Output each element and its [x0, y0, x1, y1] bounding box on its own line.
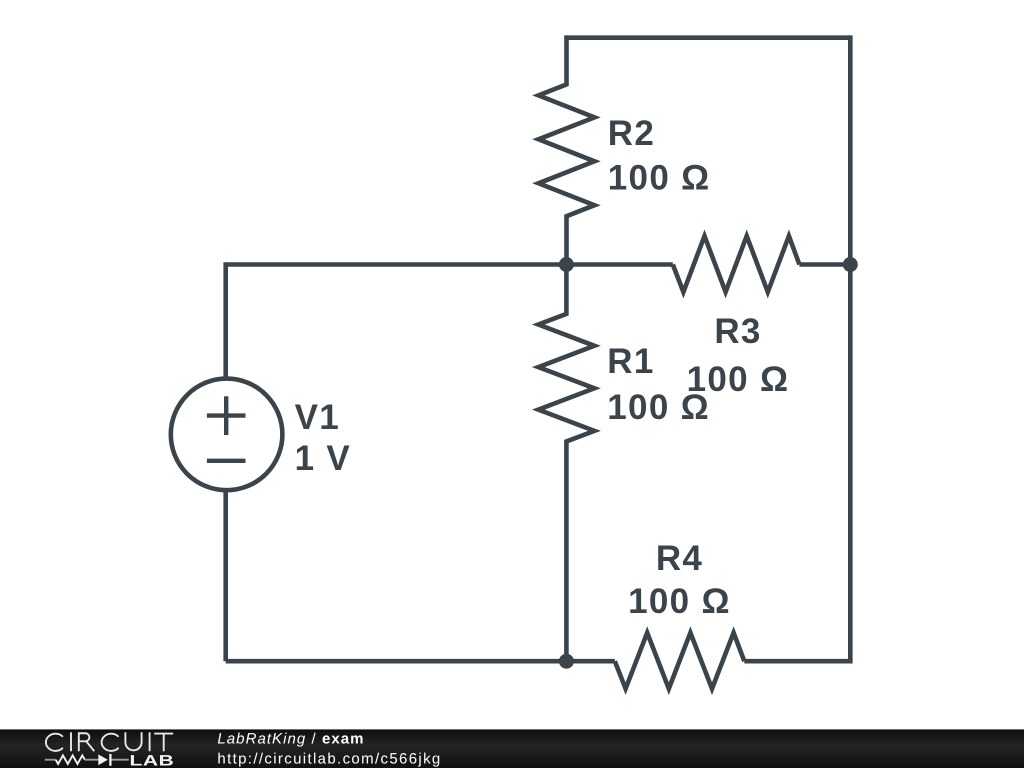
- logo letter T: [154, 734, 173, 752]
- V1 plus sign: [207, 396, 246, 435]
- logo letter U: [125, 732, 141, 750]
- logo letter I2: [149, 732, 151, 751]
- wire bottom: left to R4 and R4 to right: [226, 659, 615, 664]
- svg-text:100 Ω: 100 Ω: [608, 159, 711, 198]
- footer logo lead wire middle: [85, 759, 99, 761]
- logo letter R: [79, 733, 95, 751]
- resistor R1: [538, 265, 594, 662]
- voltage source V1: [171, 379, 283, 491]
- wire middle horizontal: V1 top corner to node A: [226, 262, 567, 267]
- wire R3 right lead to right wire: [799, 262, 850, 267]
- node C dot (R1 bottom / bottom wire): [559, 654, 574, 669]
- logo letter I1: [70, 732, 72, 751]
- logo letter C1: [46, 734, 63, 751]
- svg-text:R2: R2: [608, 114, 655, 153]
- footer logo diode cathode bar: [109, 754, 111, 766]
- logo letter C2: [102, 734, 119, 751]
- svg-text:LAB: LAB: [130, 752, 175, 768]
- footer logo resistor zigzag: [56, 755, 85, 764]
- svg-text:100 Ω: 100 Ω: [687, 360, 790, 399]
- wire node A to R3 left: [566, 262, 672, 267]
- footer bar: [0, 729, 1024, 768]
- svg-text:LabRatKing / exam: LabRatKing / exam: [217, 731, 364, 748]
- wire top: R2 top to right wire: [567, 35, 851, 40]
- wire left vertical (V1 branch): [223, 262, 228, 661]
- footer logo LAB: [130, 752, 175, 768]
- svg-text:1 V: 1 V: [295, 439, 351, 478]
- resistor R4: [615, 633, 745, 689]
- footer logo diode triangle: [98, 754, 108, 765]
- svg-text:100 Ω: 100 Ω: [628, 582, 731, 621]
- resistor R3: [673, 236, 800, 292]
- resistor R2: [539, 35, 595, 264]
- wire right vertical: [848, 35, 853, 661]
- footer logo lead wire right: [112, 759, 129, 761]
- svg-text:R1: R1: [607, 342, 654, 381]
- V1 minus sign: [207, 459, 246, 463]
- svg-text:http://circuitlab.com/c566jkg: http://circuitlab.com/c566jkg: [217, 750, 441, 767]
- node B dot (R3 right / right wire): [843, 257, 858, 272]
- footer logo CIRCUIT (hand-drawn geometric letters): [46, 732, 173, 751]
- svg-text:R3: R3: [714, 312, 761, 351]
- node A dot (R1/R2/R3 junction): [559, 257, 574, 272]
- svg-text:V1: V1: [295, 398, 340, 437]
- svg-text:R4: R4: [656, 539, 703, 578]
- footer logo lead wire left: [45, 759, 56, 761]
